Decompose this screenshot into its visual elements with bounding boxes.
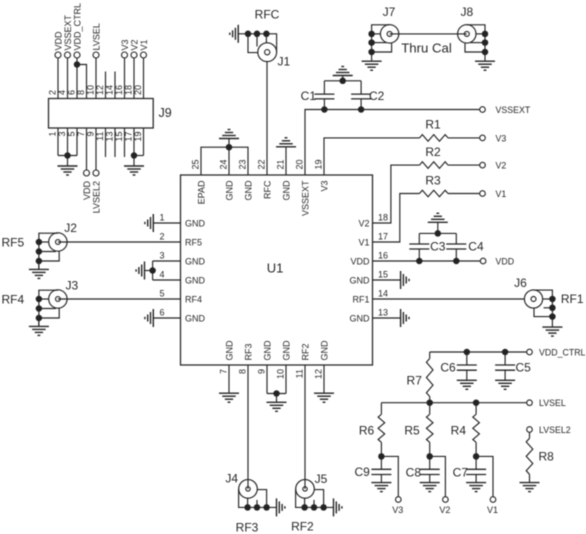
svg-text:VDD: VDD — [350, 257, 370, 267]
svg-text:J8: J8 — [460, 5, 473, 19]
svg-text:RF1: RF1 — [561, 292, 584, 306]
svg-text:V1: V1 — [358, 238, 369, 248]
svg-text:7: 7 — [76, 132, 86, 137]
svg-text:J7: J7 — [383, 5, 396, 19]
svg-text:RF5: RF5 — [185, 238, 202, 248]
svg-text:R2: R2 — [425, 145, 441, 159]
svg-text:RF5: RF5 — [2, 235, 25, 249]
svg-text:GND: GND — [244, 180, 254, 201]
svg-text:GND: GND — [185, 314, 206, 324]
svg-text:R6: R6 — [359, 424, 375, 438]
svg-text:J3: J3 — [65, 278, 78, 292]
svg-text:V2: V2 — [439, 505, 450, 515]
svg-text:9: 9 — [257, 369, 267, 374]
svg-text:GND: GND — [185, 257, 206, 267]
svg-text:J1: J1 — [278, 55, 291, 69]
svg-text:18: 18 — [378, 213, 388, 223]
svg-text:GND: GND — [185, 276, 206, 286]
svg-text:VDD_CTRL: VDD_CTRL — [539, 348, 586, 358]
svg-text:J6: J6 — [514, 276, 527, 290]
svg-text:9: 9 — [86, 132, 96, 137]
svg-text:12: 12 — [95, 85, 105, 95]
svg-text:VDD: VDD — [82, 181, 92, 201]
svg-text:C9: C9 — [354, 465, 370, 479]
svg-text:17: 17 — [378, 232, 388, 242]
svg-text:1: 1 — [159, 213, 164, 223]
svg-text:GND: GND — [320, 340, 330, 361]
svg-text:21: 21 — [276, 159, 286, 169]
svg-text:6: 6 — [159, 308, 164, 318]
svg-text:16: 16 — [378, 251, 388, 261]
svg-text:20: 20 — [133, 85, 143, 95]
svg-text:Thru Cal: Thru Cal — [401, 41, 452, 56]
svg-text:18: 18 — [124, 85, 134, 95]
svg-text:R3: R3 — [425, 173, 441, 187]
svg-text:C6: C6 — [440, 361, 456, 375]
svg-text:VDD_CTRL: VDD_CTRL — [73, 3, 83, 51]
svg-text:GND: GND — [225, 340, 235, 361]
svg-text:V3: V3 — [392, 505, 403, 515]
svg-text:13: 13 — [105, 132, 115, 142]
svg-text:V3: V3 — [120, 39, 130, 50]
svg-text:GND: GND — [225, 180, 235, 201]
svg-text:C7: C7 — [453, 465, 469, 479]
svg-text:GND: GND — [263, 340, 273, 361]
svg-text:RFC: RFC — [263, 180, 273, 199]
svg-text:2: 2 — [159, 232, 164, 242]
svg-text:17: 17 — [124, 132, 134, 142]
svg-text:RF3: RF3 — [236, 520, 259, 534]
svg-text:C3: C3 — [430, 239, 446, 253]
svg-text:LVSEL2: LVSEL2 — [92, 181, 102, 213]
svg-text:23: 23 — [238, 159, 248, 169]
svg-text:5: 5 — [159, 289, 164, 299]
svg-text:11: 11 — [295, 369, 305, 378]
svg-text:11: 11 — [95, 132, 105, 141]
svg-text:V3: V3 — [496, 133, 507, 143]
svg-text:R1: R1 — [425, 118, 441, 132]
svg-text:RF1: RF1 — [352, 295, 369, 305]
svg-text:6: 6 — [67, 90, 77, 95]
svg-text:EPAD: EPAD — [197, 180, 207, 204]
svg-text:VSSEXT: VSSEXT — [301, 180, 311, 216]
svg-text:LVSEL: LVSEL — [92, 23, 102, 50]
svg-text:VSSEXT: VSSEXT — [63, 14, 73, 50]
svg-text:V2: V2 — [358, 219, 369, 229]
svg-text:2: 2 — [48, 90, 58, 95]
svg-text:GND: GND — [282, 180, 292, 201]
svg-text:V1: V1 — [487, 505, 498, 515]
svg-text:V2: V2 — [130, 39, 140, 50]
svg-text:8: 8 — [238, 369, 248, 374]
svg-text:15: 15 — [114, 132, 124, 142]
svg-text:10: 10 — [276, 369, 286, 379]
svg-text:J5: J5 — [315, 472, 328, 486]
svg-text:J9: J9 — [159, 106, 172, 120]
svg-text:J4: J4 — [225, 472, 238, 486]
svg-text:RF4: RF4 — [2, 292, 25, 306]
svg-text:5: 5 — [67, 132, 77, 137]
svg-text:VDD: VDD — [496, 257, 515, 267]
svg-text:3: 3 — [159, 251, 164, 261]
svg-text:C2: C2 — [369, 89, 385, 103]
svg-text:15: 15 — [378, 270, 388, 280]
svg-text:14: 14 — [378, 289, 388, 299]
svg-text:3: 3 — [57, 132, 67, 137]
svg-text:13: 13 — [378, 308, 388, 318]
svg-text:1: 1 — [48, 132, 58, 137]
svg-text:VDD: VDD — [54, 31, 64, 51]
svg-text:R5: R5 — [404, 424, 420, 438]
svg-text:LVSEL2: LVSEL2 — [539, 425, 571, 435]
svg-text:R8: R8 — [539, 450, 555, 464]
svg-text:VSSEXT: VSSEXT — [496, 105, 531, 115]
svg-text:10: 10 — [86, 85, 96, 95]
svg-text:C1: C1 — [301, 89, 317, 103]
svg-text:GND: GND — [185, 219, 206, 229]
svg-text:22: 22 — [257, 159, 267, 169]
svg-text:14: 14 — [105, 85, 115, 95]
svg-text:C5: C5 — [516, 361, 532, 375]
svg-text:V1: V1 — [139, 39, 149, 50]
svg-text:RFC: RFC — [255, 8, 280, 22]
svg-text:C8: C8 — [406, 465, 422, 479]
svg-text:19: 19 — [133, 132, 143, 142]
svg-text:8: 8 — [76, 90, 86, 95]
svg-text:J2: J2 — [64, 221, 77, 235]
svg-text:12: 12 — [314, 369, 324, 379]
svg-text:R7: R7 — [407, 374, 423, 388]
svg-text:RF2: RF2 — [301, 343, 311, 360]
svg-text:GND: GND — [350, 276, 371, 286]
svg-text:U1: U1 — [267, 261, 284, 276]
svg-text:4: 4 — [159, 270, 164, 280]
svg-text:R4: R4 — [451, 424, 467, 438]
svg-text:20: 20 — [295, 159, 305, 169]
svg-text:25: 25 — [191, 159, 201, 169]
svg-text:GND: GND — [350, 314, 371, 324]
svg-text:V1: V1 — [496, 189, 507, 199]
svg-text:16: 16 — [114, 85, 124, 95]
svg-text:RF4: RF4 — [185, 295, 202, 305]
svg-text:RF3: RF3 — [244, 343, 254, 360]
svg-text:19: 19 — [314, 159, 324, 169]
svg-text:GND: GND — [282, 340, 292, 361]
svg-text:C4: C4 — [468, 239, 484, 253]
svg-text:V2: V2 — [496, 161, 507, 171]
svg-text:RF2: RF2 — [291, 519, 314, 533]
svg-text:LVSEL: LVSEL — [539, 398, 566, 408]
svg-text:V3: V3 — [320, 181, 330, 192]
svg-text:24: 24 — [219, 159, 229, 169]
svg-text:7: 7 — [219, 369, 229, 374]
svg-text:4: 4 — [57, 90, 67, 95]
